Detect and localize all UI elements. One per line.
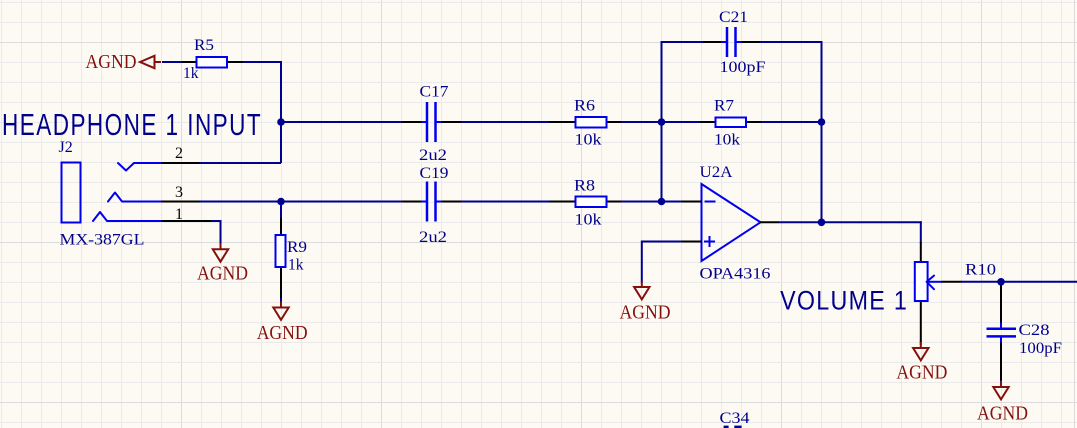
- wire top channel junction to C17: [281, 121, 402, 123]
- wire opamp plus input to AGND: [642, 241, 681, 284]
- wire R7 to right vertical: [761, 121, 822, 123]
- wire R10 bottom to AGND: [920, 341, 922, 345]
- big net label HEADPHONE 1 INPUT: [2, 106, 262, 141]
- wire C28 to AGND: [1000, 380, 1002, 384]
- svg-text:AGND: AGND: [257, 323, 308, 344]
- svg-text:R8: R8: [574, 178, 595, 195]
- node junction (821.5,222.3): [818, 219, 826, 227]
- power port AGND (opamp + input): [634, 281, 649, 299]
- svg-text:R7: R7: [714, 98, 734, 115]
- wire C21 right: [760, 41, 822, 43]
- capacitor C19: [402, 165, 461, 246]
- resistor R8: [549, 178, 621, 229]
- J2 pin 2 contact and pin: [118, 145, 201, 171]
- svg-text:U2A: U2A: [700, 164, 733, 181]
- svg-text:J2: J2: [59, 139, 73, 156]
- wire R7 left: [662, 121, 702, 123]
- svg-text:2: 2: [175, 145, 183, 162]
- wire output corner down to R10: [920, 221, 922, 243]
- wire R10 wiper to junction: [941, 281, 1001, 283]
- svg-text:MX-387GL: MX-387GL: [60, 232, 145, 249]
- wire C19 to R8: [461, 201, 550, 203]
- svg-text:10k: 10k: [575, 212, 602, 229]
- svg-text:R5: R5: [194, 37, 214, 54]
- svg-text:1: 1: [175, 206, 183, 223]
- wire AGND to R5: [162, 61, 182, 63]
- connector J2 (MX-387GL jack) body: [59, 139, 145, 249]
- resistor R9: [276, 218, 308, 299]
- power port AGND (below J2 pin1): [213, 243, 228, 261]
- capacitor C17: [402, 84, 461, 165]
- svg-text:10k: 10k: [714, 132, 740, 149]
- svg-text:2u2: 2u2: [419, 147, 447, 164]
- svg-text:C19: C19: [420, 165, 449, 182]
- wire junction down to C28: [1000, 282, 1002, 290]
- svg-text:1k: 1k: [183, 65, 199, 82]
- wire J2 pin3 to junction: [200, 201, 281, 203]
- resistor R6: [549, 98, 621, 149]
- svg-text:AGND: AGND: [197, 263, 248, 284]
- node junction (821.5,122): [818, 118, 826, 126]
- wire junction to right edge: [1001, 281, 1077, 283]
- wire right feedback vertical x821.6: [821, 41, 823, 223]
- capacitor C21: [703, 9, 766, 76]
- svg-text:OPA4316: OPA4316: [700, 266, 771, 283]
- svg-text:1k: 1k: [288, 257, 304, 274]
- svg-text:C28: C28: [1019, 322, 1050, 339]
- svg-text:HEADPHONE 1 INPUT: HEADPHONE 1 INPUT: [2, 106, 262, 141]
- wire C21 left: [662, 41, 704, 43]
- wire R5 to corner x281: [243, 61, 282, 163]
- node: top channel junction at (281,122): [277, 118, 285, 126]
- wire R8 to minus junction: [621, 201, 682, 203]
- svg-text:3: 3: [175, 184, 183, 201]
- node: bottom channel junction at (281,201.5): [277, 198, 285, 206]
- text C34 (partial label at bottom): [720, 410, 750, 428]
- wire J2 pin2 to vertical x281: [200, 162, 281, 164]
- svg-text:10k: 10k: [575, 132, 602, 149]
- big text VOLUME 1: [780, 286, 908, 316]
- power port AGND (below R10): [913, 342, 928, 360]
- wire opamp output to junction and to R10: [779, 221, 922, 223]
- node junction (1001,281): [997, 278, 1005, 286]
- svg-text:R6: R6: [574, 98, 595, 115]
- resistor R5: [182, 37, 243, 82]
- node junction (661.5,201.5): [658, 198, 666, 206]
- power port AGND (below C28): [993, 381, 1008, 399]
- power port AGND (left of R5): [86, 52, 162, 73]
- capacitor C28: [987, 285, 1063, 381]
- potentiometer R10: [915, 242, 996, 342]
- power port AGND (below R9): [273, 302, 288, 320]
- svg-text:AGND: AGND: [977, 404, 1028, 425]
- J2 pin 1 contact and pin: [93, 206, 212, 223]
- J2 pin 3 contact and pin: [108, 184, 201, 202]
- svg-text:AGND: AGND: [896, 363, 947, 384]
- wire J2 pin1 down to AGND: [211, 220, 222, 245]
- svg-text:C21: C21: [719, 9, 748, 26]
- wire R9 to AGND: [280, 298, 282, 304]
- svg-text:100pF: 100pF: [1019, 340, 1062, 357]
- svg-text:2u2: 2u2: [419, 229, 447, 246]
- node junction (661.5,122): [658, 118, 666, 126]
- svg-text:C17: C17: [420, 84, 449, 101]
- op-amp U2A (OPA4316): [681, 164, 779, 283]
- resistor R7: [700, 98, 761, 149]
- wire C17 to R6: [461, 121, 550, 123]
- svg-text:VOLUME 1: VOLUME 1: [780, 286, 908, 316]
- wire junction down to R9: [280, 202, 282, 220]
- svg-text:R10: R10: [965, 262, 996, 279]
- wire R6 to opamp minus node: [621, 121, 681, 123]
- svg-text:R9: R9: [287, 239, 307, 256]
- svg-text:C34: C34: [720, 410, 750, 427]
- wire left feedback vertical x661.5: [661, 41, 663, 203]
- wire bottom channel junction to C19: [281, 201, 402, 203]
- svg-text:AGND: AGND: [86, 52, 137, 73]
- svg-text:AGND: AGND: [620, 303, 671, 324]
- svg-text:100pF: 100pF: [720, 59, 766, 76]
